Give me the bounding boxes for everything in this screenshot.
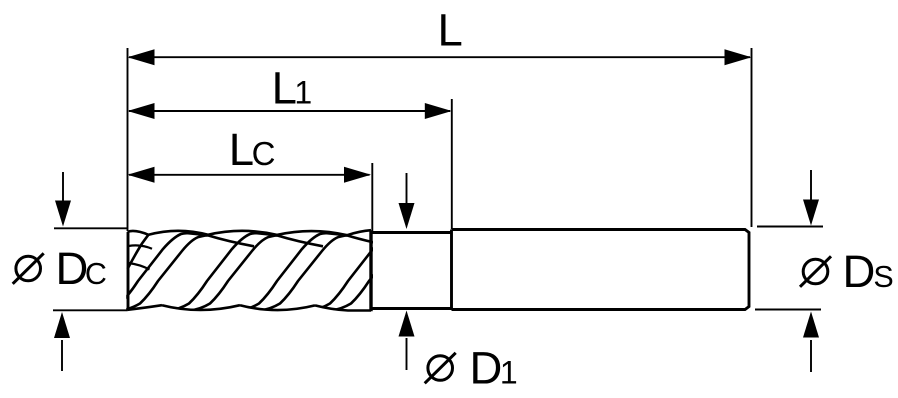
arrowhead Lc right	[344, 167, 371, 183]
descending back edge from cusp x=347	[347, 235, 393, 246]
end face gash upper	[129, 245, 153, 248]
extension line left (x=127.5)	[127, 48, 129, 231]
arrowhead Lc left	[128, 167, 155, 183]
neck outline	[371, 233, 452, 309]
extension line right of L1 (x=451.8)	[451, 99, 453, 229]
flute edge curve crossing x=166	[120, 235, 208, 310]
shank outline	[452, 230, 750, 310]
flute edge curve crossing x=306	[260, 235, 348, 310]
label Ø Dc	[13, 243, 107, 294]
flute top silhouette arc	[277, 231, 347, 235]
descending back edge from cusp x=277	[277, 235, 323, 246]
flute section group	[100, 230, 419, 311]
arrowhead L1 right	[425, 103, 452, 119]
label Ø D1	[425, 343, 518, 394]
label Ø Ds	[800, 246, 894, 297]
descending back edge from cusp x=208	[208, 235, 254, 246]
flute edge curve crossing x=236	[190, 235, 278, 310]
Ds bottom extension line	[755, 309, 821, 311]
flute right edge	[369, 230, 372, 311]
svg-text:L: L	[438, 5, 463, 56]
flute edge curve at left end	[128, 235, 149, 269]
extension line right of L (x=751.5)	[751, 48, 753, 227]
flute edge curve crossing x=377	[331, 235, 419, 310]
Dc bottom extension line	[53, 309, 128, 311]
flute land curve crossing x=146	[100, 233, 208, 310]
dimension line L1	[129, 110, 450, 112]
arrowhead L right	[725, 49, 752, 65]
arrowhead L1 left	[128, 103, 155, 119]
Ds arrow up	[803, 312, 819, 373]
end face gash lower	[129, 263, 150, 270]
flute land curve crossing x=356	[310, 233, 418, 310]
dimension line L	[129, 56, 750, 58]
dimension line Lc	[129, 174, 370, 176]
arrowhead L left	[128, 49, 155, 65]
extension line right of Lc (x=372.3)	[371, 163, 373, 231]
flute top silhouette arc	[128, 231, 149, 235]
flute bottom silhouette arc	[315, 305, 371, 310]
flute bottom silhouette arc	[162, 305, 240, 310]
Dc top extension line	[54, 227, 128, 229]
D1 arrow up (bottom of neck)	[399, 311, 415, 371]
Ds top extension line	[757, 226, 823, 228]
flute land curve crossing x=285	[239, 233, 347, 310]
Dc arrow up	[54, 312, 70, 371]
flute top silhouette arc	[347, 230, 371, 235]
flute left edge	[127, 232, 130, 311]
neck-shank step line	[450, 230, 453, 310]
Dc arrow down	[55, 172, 71, 227]
flute land curve crossing x=215	[169, 233, 277, 310]
flute top silhouette arc	[149, 231, 209, 235]
Ds arrow down	[803, 170, 819, 226]
flute bottom silhouette arc	[128, 305, 163, 310]
D1 arrow down (top of neck)	[399, 173, 415, 229]
flute bottom silhouette arc	[240, 305, 315, 310]
flute top silhouette arc	[208, 231, 277, 235]
